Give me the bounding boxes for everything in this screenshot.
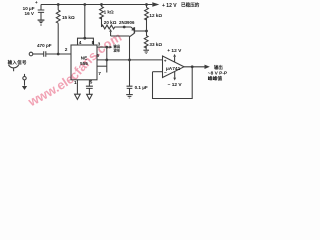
- svg-text:µA741: µA741: [166, 66, 181, 72]
- wire base: [134, 30, 146, 32]
- wire collector down: [129, 36, 131, 86]
- svg-text:2: 2: [65, 47, 68, 53]
- node supply bracket: [83, 37, 86, 40]
- potentiometer R3 20k horizontal: [102, 25, 132, 29]
- svg-text:20 kΩ: 20 kΩ: [104, 20, 117, 25]
- svg-text:12 kΩ: 12 kΩ: [149, 13, 162, 18]
- IC U1 NE555 box: [71, 45, 97, 80]
- transistor Q1 collector: [130, 33, 135, 37]
- arrow +12V supply: [152, 2, 159, 6]
- svg-text:已稳压的: 已稳压的: [181, 2, 200, 9]
- resistor R2 1k: [100, 5, 104, 28]
- wire top +12V rail: [41, 4, 152, 6]
- capacitor C4 0.1uF plates: [127, 86, 133, 88]
- node rail-12k: [145, 3, 148, 6]
- resistor R1 15k: [56, 5, 60, 54]
- wire feedback loop: [153, 67, 193, 99]
- bracket pins 4 8: [78, 38, 94, 45]
- node trigger: [57, 53, 60, 56]
- wire wiper to collector: [111, 35, 130, 37]
- svg-text:555: 555: [80, 61, 88, 66]
- wire pin3 output: [97, 46, 110, 48]
- svg-text:1 kΩ: 1 kΩ: [104, 10, 114, 15]
- svg-text:~8 V P-P: ~8 V P-P: [208, 71, 228, 77]
- wire pin1 ground lead: [76, 80, 78, 94]
- capacitor C1 10uF lead: [40, 5, 42, 20]
- svg-text:+: +: [35, 0, 38, 5]
- wiper arrow R3: [110, 32, 112, 36]
- ground J2: [22, 86, 27, 90]
- wire pin7: [97, 65, 107, 67]
- wire bus pin6 to opamp: [97, 59, 163, 61]
- svg-text:8: 8: [92, 40, 95, 46]
- capacitor C2 470pF plates: [44, 51, 46, 57]
- node pin3: [105, 46, 108, 49]
- brace input: [9, 65, 19, 72]
- svg-text:−: −: [164, 70, 167, 75]
- wire output: [184, 66, 205, 68]
- svg-text:− 12 V: − 12 V: [168, 82, 183, 88]
- transistor Q1 bar: [133, 27, 135, 33]
- node bus collector: [128, 59, 131, 62]
- svg-text:6: 6: [96, 53, 99, 59]
- svg-text:1: 1: [74, 80, 77, 86]
- ground C3: [87, 94, 93, 99]
- svg-text:33 kΩ: 33 kΩ: [149, 42, 162, 47]
- wire inverting input: [153, 71, 163, 73]
- ground C4: [126, 94, 133, 96]
- ground pin1: [75, 94, 81, 99]
- arrow output: [205, 65, 210, 69]
- svg-text:+: +: [164, 59, 167, 64]
- capacitor C4 lead: [129, 88, 131, 94]
- resistor R5 33k: [144, 31, 148, 50]
- ground C1: [38, 19, 45, 21]
- wire C2 to pin2: [46, 53, 71, 55]
- wire opamp V-: [174, 72, 176, 78]
- svg-text:NE: NE: [81, 56, 87, 61]
- svg-text:输出: 输出: [214, 64, 223, 71]
- capacitor C3 plates: [86, 86, 93, 88]
- node rail-15k: [57, 3, 60, 6]
- wire pin3 to bus: [106, 47, 108, 72]
- capacitor C1 plates: [38, 10, 45, 12]
- node bus pin3: [105, 59, 108, 62]
- wire 555 supply: [84, 5, 86, 39]
- svg-text:波形: 波形: [113, 48, 120, 53]
- svg-text:3: 3: [98, 41, 101, 47]
- svg-text:16 V: 16 V: [25, 11, 35, 16]
- wire input: [33, 53, 44, 55]
- node base divider: [145, 30, 148, 33]
- wire J2 stub: [24, 74, 26, 77]
- arrow opamp V-: [173, 78, 176, 81]
- arrow opamp V+: [173, 54, 176, 57]
- svg-text:470 pF: 470 pF: [37, 43, 52, 48]
- op-amp U2 triangle: [163, 56, 185, 78]
- svg-text:+ 12 V: + 12 V: [162, 3, 177, 9]
- svg-text:4: 4: [79, 40, 82, 46]
- terminal J2 ground side: [23, 77, 26, 80]
- node rail-555 supply: [83, 3, 86, 6]
- svg-text:7: 7: [98, 71, 101, 77]
- svg-text:+ 12 V: + 12 V: [167, 48, 182, 54]
- node output: [191, 65, 194, 68]
- svg-text:2N3906: 2N3906: [119, 20, 135, 25]
- svg-text:15 kΩ: 15 kΩ: [62, 15, 75, 20]
- capacitor C3 pin5 lead: [88, 80, 90, 94]
- input terminal J1: [29, 52, 33, 56]
- resistor R4 12k: [145, 5, 149, 32]
- wire opamp V+: [174, 57, 176, 62]
- svg-text:0.1 µF: 0.1 µF: [135, 85, 148, 90]
- arrow pin3: [110, 46, 113, 49]
- node emitter wire: [123, 26, 126, 29]
- ground R5: [143, 49, 149, 51]
- wire J2: [24, 80, 26, 86]
- svg-text:www.elecfans.com: www.elecfans.com: [25, 29, 124, 107]
- svg-text:5: 5: [90, 80, 93, 86]
- transistor Q1 emitter: [131, 27, 134, 30]
- node rail-1k: [100, 3, 103, 6]
- svg-text:输入信号: 输入信号: [8, 59, 27, 66]
- svg-text:峰峰值: 峰峰值: [208, 75, 223, 82]
